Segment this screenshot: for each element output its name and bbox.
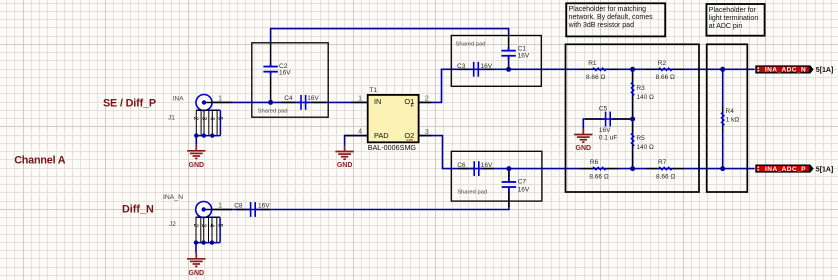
svg-text:INA_ADC_N: INA_ADC_N	[765, 67, 806, 74]
wire: T1 O2 (pin3) riser down to C6 row	[419, 136, 452, 169]
resistor R5	[632, 122, 634, 133]
svg-text:140 Ω: 140 Ω	[636, 144, 654, 151]
shared pad box (C2/C4)	[252, 43, 328, 117]
svg-text:Placeholder for: Placeholder for	[709, 7, 757, 14]
balun T1	[368, 95, 419, 142]
svg-text:SE / Diff_P: SE / Diff_P	[103, 97, 156, 109]
svg-text:16V: 16V	[481, 162, 493, 169]
wire: T1 PAD (pin4) to GND drop	[345, 136, 368, 146]
capacitor C4	[297, 95, 310, 110]
wire: J2 pin1 row through C8 to C7 riser	[211, 189, 509, 210]
svg-text:2: 2	[425, 96, 429, 103]
ground (C5)	[574, 129, 592, 143]
svg-text:5[1A]: 5[1A]	[816, 166, 834, 173]
C2 pin leads (black)	[270, 43, 272, 63]
junction: C7 on O2 net	[506, 166, 511, 171]
svg-text:F: F	[411, 103, 414, 109]
C4 pin leads (black)	[281, 101, 296, 103]
junction: C2 at input net	[268, 100, 273, 105]
svg-text:R1: R1	[588, 60, 597, 67]
svg-text:0.1 uF: 0.1 uF	[599, 135, 617, 142]
capacitor C6	[470, 161, 483, 176]
wire: C3 row through shared pad box to R1/R2 row and INA_ADC_N	[451, 68, 754, 70]
junction: R4 top at INA_ADC_N	[720, 67, 725, 72]
svg-text:8.66 Ω: 8.66 Ω	[656, 74, 675, 81]
svg-text:J2: J2	[169, 221, 176, 228]
wire: T1 O1 (pin2) riser to C3 row	[419, 69, 452, 102]
port INA_ADC_N	[755, 65, 813, 73]
svg-text:R7: R7	[658, 159, 667, 166]
ground (J2)	[187, 253, 205, 267]
svg-text:GND: GND	[576, 145, 592, 152]
matching network box	[566, 44, 700, 192]
shared pad box (C3/C1)	[451, 36, 541, 87]
svg-text:C7: C7	[518, 179, 527, 186]
C7 pin leads (black)	[508, 172, 510, 179]
svg-text:R5: R5	[636, 135, 645, 142]
svg-text:T1: T1	[369, 87, 377, 94]
svg-text:light termination: light termination	[709, 15, 759, 22]
svg-text:140 Ω: 140 Ω	[636, 94, 654, 101]
svg-text:5[1A]: 5[1A]	[816, 67, 834, 74]
capacitor C7	[502, 178, 516, 190]
resistor R3	[632, 73, 634, 82]
resistor R2	[646, 68, 659, 70]
svg-text:8.66 Ω: 8.66 Ω	[586, 74, 605, 81]
svg-text:4: 4	[358, 129, 362, 136]
svg-text:INA: INA	[173, 96, 184, 103]
svg-text:GND: GND	[337, 162, 353, 169]
J2 pin1 lead (black)	[211, 209, 232, 211]
C8 pin leads (black)	[236, 209, 247, 211]
svg-text:J1: J1	[168, 114, 175, 121]
svg-text:R2: R2	[658, 60, 667, 67]
svg-text:at ADC pin: at ADC pin	[709, 23, 743, 30]
capacitor C3	[470, 62, 483, 77]
svg-text:R6: R6	[590, 159, 599, 166]
ground (T1 PAD)	[335, 146, 353, 160]
capacitor C8	[247, 202, 260, 217]
svg-text:GND: GND	[189, 162, 205, 169]
resistor R7	[646, 168, 659, 170]
resistor R4	[722, 107, 724, 113]
svg-text:16V: 16V	[481, 63, 493, 70]
svg-text:Shared pad: Shared pad	[258, 109, 288, 115]
wire: C1 bottom lead to junction	[508, 57, 510, 69]
svg-text:16V: 16V	[518, 52, 530, 59]
svg-text:R4: R4	[726, 108, 735, 115]
svg-text:1: 1	[218, 203, 222, 210]
ground (J1)	[187, 145, 205, 159]
svg-text:16V: 16V	[258, 202, 270, 209]
svg-text:16V: 16V	[518, 187, 530, 194]
capacitor C2	[263, 63, 277, 75]
wire: R4 column	[722, 69, 724, 168]
C6 pin leads (black)	[458, 168, 469, 170]
svg-text:3: 3	[425, 129, 429, 136]
svg-text:8.66 Ω: 8.66 Ω	[589, 173, 608, 180]
svg-text:INA_ADC_P: INA_ADC_P	[765, 166, 806, 173]
junction: C1 on O1 net	[506, 67, 511, 72]
placeholder note box 2	[706, 4, 764, 36]
svg-text:1: 1	[358, 96, 362, 103]
svg-text:network. By default, comes: network. By default, comes	[569, 14, 654, 21]
junction: R4 bottom at INA_ADC_P	[720, 166, 725, 171]
resistor R6	[580, 168, 593, 170]
shared pad box (C6/C7)	[451, 151, 542, 201]
svg-text:1: 1	[218, 96, 222, 103]
junction: R5 bottom on O2 net	[630, 166, 635, 171]
C3 pin leads (black)	[458, 68, 469, 70]
svg-text:BAL-0006SMG: BAL-0006SMG	[368, 143, 417, 152]
capacitor C5	[602, 112, 615, 127]
wire: C6 row through to R6/R7 row and INA_ADC_P	[451, 168, 754, 170]
light termination box	[707, 44, 748, 192]
svg-text:with 3dB resistor pad: with 3dB resistor pad	[568, 22, 634, 29]
T1 pin leads (black)	[351, 101, 368, 103]
svg-text:Shared pad: Shared pad	[457, 190, 487, 196]
svg-text:Placeholder for matching: Placeholder for matching	[569, 6, 647, 13]
svg-text:C6: C6	[457, 162, 466, 169]
J1 pin1 lead (black)	[211, 101, 232, 103]
svg-text:16V: 16V	[307, 95, 319, 102]
svg-text:16V: 16V	[279, 70, 291, 77]
junction: C5/R3/R5 node	[630, 117, 635, 122]
svg-text:Diff_N: Diff_N	[122, 204, 154, 216]
wire: C2 top riser and top horizontal run to C1	[271, 29, 509, 43]
svg-text:R3: R3	[636, 85, 645, 92]
wire: C5 to GND corner	[583, 119, 632, 129]
svg-text:C3: C3	[457, 63, 466, 70]
junction: R3 top on O1 net	[630, 67, 635, 72]
svg-text:PAD: PAD	[374, 131, 389, 140]
connector J2	[196, 202, 212, 218]
svg-text:C4: C4	[284, 95, 293, 102]
svg-text:8.66 Ω: 8.66 Ω	[656, 173, 675, 180]
svg-text:C8: C8	[234, 202, 243, 209]
svg-text:16V: 16V	[599, 127, 611, 134]
C5 pin leads (black)	[585, 118, 602, 120]
svg-text:INA_N: INA_N	[163, 194, 183, 201]
placeholder note box 1	[566, 3, 665, 36]
connector J1	[196, 95, 212, 111]
wire: J1 pin1 to T1 IN	[211, 101, 367, 103]
svg-text:Shared pad: Shared pad	[456, 42, 486, 48]
svg-text:Channel A: Channel A	[14, 155, 66, 167]
C1 pin leads (black)	[508, 36, 510, 50]
svg-text:IN: IN	[374, 97, 381, 106]
capacitor C1	[501, 47, 515, 59]
svg-text:C5: C5	[599, 106, 608, 113]
svg-text:1 kΩ: 1 kΩ	[726, 116, 740, 123]
wire: C7 to C6 junction	[508, 169, 510, 181]
port INA_ADC_P	[755, 165, 813, 173]
svg-text:GND: GND	[189, 270, 205, 277]
wire: R3/R5 column	[632, 69, 634, 168]
resistor R1	[580, 68, 593, 70]
